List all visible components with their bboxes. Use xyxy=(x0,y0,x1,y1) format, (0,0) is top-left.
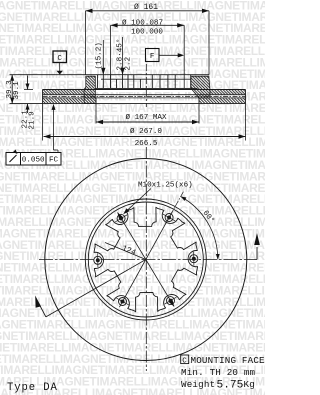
bolt holes M10 x6 xyxy=(165,214,173,222)
dimension (15.2) xyxy=(102,40,104,75)
60 degree dimension arc xyxy=(181,197,218,260)
inboard plate hatching xyxy=(43,98,84,103)
extension line right Ø161 xyxy=(208,11,210,75)
hub rim inner circle xyxy=(88,202,203,317)
svg-text:F: F xyxy=(150,53,155,61)
extension line left Ø100 xyxy=(110,25,112,88)
section view direction arrow left xyxy=(46,260,146,317)
dimension Ø267.0 / 266.5 xyxy=(44,136,246,138)
inboard plate top xyxy=(43,97,246,99)
band left edge xyxy=(42,90,44,104)
svg-text:(15.2): (15.2) xyxy=(96,42,104,69)
svg-text:5.75: 5.75 xyxy=(217,380,244,392)
dimension 2.8x45 / 2.2 chamfer xyxy=(122,37,124,75)
hub rim outer circle xyxy=(85,199,206,320)
band top face xyxy=(43,89,246,91)
svg-text:Weight: Weight xyxy=(181,379,215,390)
hat right wall hatched xyxy=(191,76,210,98)
hub scalloped outline xyxy=(94,207,198,312)
radial line to lower-right hole (124 dim) xyxy=(146,260,174,307)
band bottom face xyxy=(10,103,246,105)
feature control frame runout 0.050 FC xyxy=(6,153,61,166)
Ø267 extension lines xyxy=(42,104,44,141)
flange verticals / bolt holes in section xyxy=(97,75,99,89)
flange counterbore line xyxy=(101,78,191,80)
svg-text:Ø 167 MAX: Ø 167 MAX xyxy=(125,113,166,122)
outboard plate hatching xyxy=(43,90,84,95)
radial line to upper-right hole xyxy=(146,212,172,260)
svg-text:Ø 267.0: Ø 267.0 xyxy=(130,127,162,136)
dimension Ø167 MAX xyxy=(96,121,199,123)
svg-text:C: C xyxy=(182,357,187,365)
section view direction arrow right xyxy=(256,247,258,260)
datum C box and leader xyxy=(53,51,67,63)
svg-text:Min. TH 20 mm: Min. TH 20 mm xyxy=(181,367,256,378)
svg-text:C: C xyxy=(57,55,62,63)
short radial line under 124 label xyxy=(105,243,146,260)
FCF leader to braking surface xyxy=(57,150,59,153)
dimension Ø161 top xyxy=(86,10,210,12)
svg-text:100.000: 100.000 xyxy=(131,28,163,36)
hat top face line xyxy=(10,74,210,76)
svg-text:266.5: 266.5 xyxy=(135,140,158,148)
radial line to upper-left hole (124 dim) xyxy=(118,212,146,259)
dash radial through upper-right hole xyxy=(165,190,184,224)
svg-text:39.1: 39.1 xyxy=(13,81,21,100)
svg-text:21.9: 21.9 xyxy=(28,111,36,130)
svg-text:0.050: 0.050 xyxy=(22,157,45,165)
svg-text:Ø 161: Ø 161 xyxy=(134,3,158,12)
band right edge xyxy=(245,90,247,104)
vent centre dash line xyxy=(43,95,246,97)
svg-text:Ø 100.087: Ø 100.087 xyxy=(122,18,163,27)
svg-text:FC: FC xyxy=(49,157,59,165)
svg-text:MOUNTING FACE: MOUNTING FACE xyxy=(191,355,266,366)
inboard plate inner edge left + Ø167 extension xyxy=(95,98,97,104)
dimension Ø100.087/100.000 xyxy=(111,24,185,26)
svg-text:Type DA: Type DA xyxy=(7,382,58,394)
outboard plate bottom xyxy=(43,94,246,96)
datum F box and leader xyxy=(146,49,160,62)
inboard plate inner edge right + Ø167 extension xyxy=(198,98,200,104)
vertical centre line xyxy=(145,147,147,371)
flange bottom line xyxy=(96,87,198,89)
hat left wall hatched xyxy=(84,76,96,103)
svg-text:M10x1.25(x6): M10x1.25(x6) xyxy=(138,182,193,190)
radial line to lower-left hole xyxy=(119,260,145,308)
svg-text:Kg: Kg xyxy=(244,379,255,390)
note C MOUNTING FACE xyxy=(181,355,189,364)
extension line left Ø161 xyxy=(85,11,87,75)
section centre line xyxy=(145,64,147,107)
dimension 22.1/21.9 xyxy=(27,76,29,90)
extension line right Ø100 xyxy=(183,25,185,88)
dimension 39.3/39.1 xyxy=(11,75,13,104)
svg-text:2.2: 2.2 xyxy=(124,56,132,70)
svg-text:2.8·45°: 2.8·45° xyxy=(115,39,124,71)
disc outer circle xyxy=(45,159,247,361)
horizontal centre line xyxy=(39,259,257,261)
